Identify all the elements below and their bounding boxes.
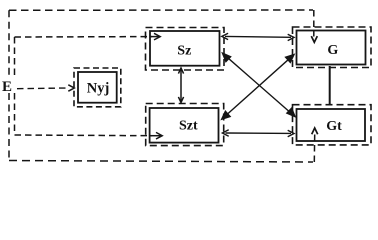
wire Szt-Gt double arrow xyxy=(222,130,294,137)
arrowhead into Gt (up) xyxy=(312,128,318,134)
svg-text:G: G xyxy=(327,43,338,58)
arrowhead into Szt xyxy=(150,132,163,139)
block Sz dashed outline xyxy=(146,28,225,71)
block G xyxy=(297,31,366,65)
wire Sz-Gt diagonal double arrow xyxy=(223,53,296,116)
block G dashed outline xyxy=(293,27,372,68)
svg-text:Gt: Gt xyxy=(326,119,342,134)
wire inner dashed into Szt xyxy=(15,134,153,137)
block Sz xyxy=(150,31,220,66)
arrowhead into Sz xyxy=(150,33,161,40)
wire outer dashed bottom border xyxy=(9,161,313,163)
wire outer dashed rise into Gt xyxy=(313,135,315,163)
wire Sz-G double arrow xyxy=(222,33,294,40)
wire outer dashed drop into G xyxy=(313,10,315,37)
wire outer dashed top border xyxy=(9,9,313,11)
wire outer dashed left vertical (gap at E) xyxy=(8,10,10,160)
svg-text:Szt: Szt xyxy=(179,118,198,133)
wire Sz-Szt vertical double arrow xyxy=(178,68,183,103)
svg-text:E: E xyxy=(2,79,12,95)
block Nyj xyxy=(78,72,117,103)
wire G-Gt vertical line xyxy=(329,66,331,105)
wire E to Nyj dashed arrow xyxy=(17,87,67,90)
wire Szt-G diagonal double arrow xyxy=(222,55,294,120)
wire inner dashed left vertical (gap at E) xyxy=(14,37,16,135)
wire inner dashed into Sz xyxy=(15,36,153,38)
block Szt xyxy=(150,108,219,143)
block Gt dashed outline xyxy=(293,105,372,145)
svg-text:Nyj: Nyj xyxy=(87,80,110,96)
arrowhead into G (down) xyxy=(311,36,317,42)
block Szt dashed outline xyxy=(146,104,224,146)
svg-text:Sz: Sz xyxy=(177,44,191,59)
block Gt xyxy=(297,109,366,141)
block Nyj dashed outline xyxy=(74,68,121,107)
